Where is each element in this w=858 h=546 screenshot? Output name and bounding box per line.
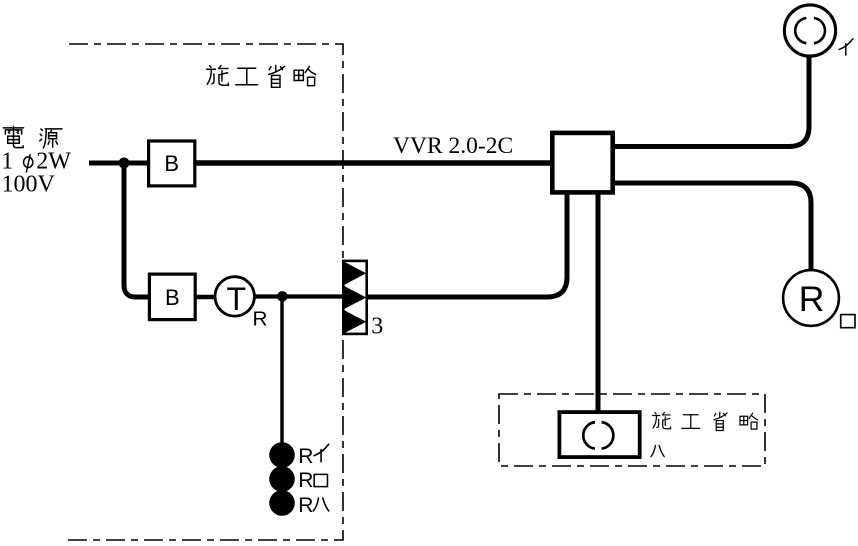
label ロ <box>841 315 855 328</box>
node: source junction dot <box>119 158 130 169</box>
wire: junction down to breaker B2 <box>124 163 149 297</box>
label イ <box>839 39 853 55</box>
breaker B2 <box>149 274 195 320</box>
svg-text:R: R <box>253 307 268 330</box>
label Rハ <box>298 494 328 517</box>
outlet box ハ (construction omitted) <box>559 412 639 457</box>
label 施工省略 (top) <box>207 65 316 87</box>
wire: junction box to lamp イ <box>612 55 809 147</box>
svg-text:T: T <box>227 281 247 317</box>
lamp R ロ <box>783 270 839 326</box>
lamp dots Rイ Rロ Rハ <box>269 442 295 468</box>
node: junction dot after timer <box>277 291 288 302</box>
lamp receptacle イ <box>784 5 835 56</box>
wire: junction box down to outlet box ハ <box>596 192 601 412</box>
label 電源 (power source) <box>3 126 62 148</box>
wire: source feed <box>89 161 148 166</box>
svg-text:R: R <box>298 469 313 492</box>
wire: junction box down to selector-switch run <box>367 192 567 297</box>
remote-control selector switch (3) <box>343 261 366 334</box>
svg-text:B: B <box>164 151 179 176</box>
svg-text:R: R <box>298 494 313 517</box>
svg-text:100V: 100V <box>2 171 56 197</box>
dashed outline box 1 (top-left construction-omitted area) <box>68 44 343 540</box>
label 施工省略 (bottom) <box>653 412 758 430</box>
svg-text:R: R <box>298 445 313 468</box>
wire: B2 to timer <box>195 295 216 300</box>
timer TR <box>215 277 267 331</box>
label ハ (bottom) <box>651 445 664 456</box>
svg-text:3: 3 <box>371 314 383 340</box>
svg-text:R: R <box>799 279 825 319</box>
label Rロ <box>298 469 327 492</box>
wire: timer to selector switch <box>254 294 343 298</box>
wire: B1 to junction box (VVR run) <box>195 160 551 166</box>
svg-text:VVR 2.0-2C: VVR 2.0-2C <box>393 133 513 159</box>
breaker B1 <box>149 141 195 186</box>
label Rイ <box>298 444 328 468</box>
wire: down to lamp group <box>280 297 283 445</box>
svg-text:B: B <box>165 285 180 310</box>
dashed outline box 2 (bottom construction-omitted area) <box>499 394 765 466</box>
wire: junction box to lamp R ロ <box>612 183 811 271</box>
label 1φ2W <box>1 148 71 174</box>
junction box <box>552 133 612 193</box>
